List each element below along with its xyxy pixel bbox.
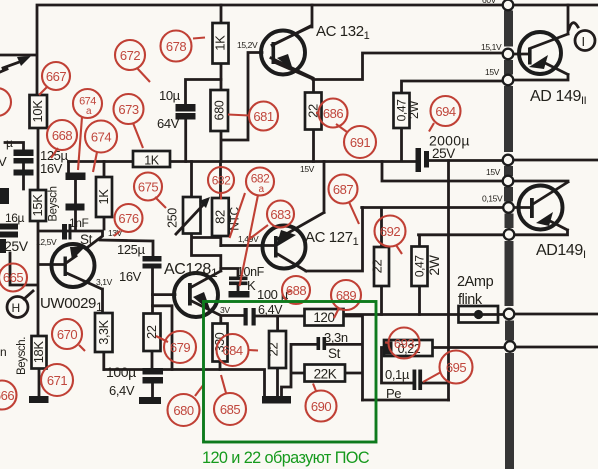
svg-text:3,1V: 3,1V	[96, 277, 113, 287]
svg-text:µ: µ	[6, 136, 13, 150]
svg-text:1nF: 1nF	[69, 216, 89, 230]
svg-text:AC 1321: AC 1321	[316, 23, 370, 42]
svg-text:3,3n: 3,3n	[324, 330, 348, 345]
svg-text:2Amp: 2Amp	[457, 274, 494, 290]
svg-text:25V: 25V	[432, 146, 455, 161]
svg-text:16V: 16V	[40, 161, 63, 176]
svg-text:670: 670	[57, 327, 77, 342]
svg-text:15K: 15K	[30, 194, 45, 217]
svg-text:82: 82	[212, 210, 227, 224]
svg-text:1K: 1K	[213, 35, 228, 51]
svg-text:685: 685	[220, 402, 240, 417]
svg-text:682: 682	[212, 174, 231, 188]
svg-text:250: 250	[166, 208, 180, 228]
svg-text:691: 691	[350, 135, 370, 150]
svg-text:3V: 3V	[220, 305, 230, 315]
svg-text:667: 667	[46, 69, 66, 84]
svg-text:AD149I: AD149I	[536, 242, 586, 261]
svg-text:22K: 22K	[314, 367, 337, 382]
svg-text:15,1V: 15,1V	[481, 42, 502, 52]
svg-text:10µ: 10µ	[159, 88, 181, 103]
svg-text:2W: 2W	[407, 100, 421, 119]
svg-text:120 и 22 образуют ПОС: 120 и 22 образуют ПОС	[202, 449, 370, 467]
svg-text:60V: 60V	[482, 0, 497, 5]
svg-text:St: St	[328, 346, 341, 361]
svg-text:683: 683	[270, 207, 290, 222]
svg-text:22: 22	[266, 343, 281, 357]
svg-text:I: I	[582, 34, 585, 49]
svg-text:Beysch.: Beysch.	[16, 337, 28, 375]
svg-text:Pe: Pe	[386, 386, 401, 401]
svg-text:AD 149II: AD 149II	[530, 88, 587, 107]
svg-text:666: 666	[0, 388, 14, 403]
svg-text:100 µ: 100 µ	[257, 287, 289, 302]
svg-text:12,5V: 12,5V	[36, 237, 57, 247]
svg-text:AC 1271: AC 1271	[305, 229, 359, 248]
svg-text:0,1µ: 0,1µ	[385, 367, 410, 382]
svg-text:679: 679	[170, 340, 190, 355]
svg-text:668: 668	[52, 128, 72, 143]
svg-text:665: 665	[3, 270, 23, 285]
svg-text:16V: 16V	[119, 269, 142, 284]
svg-text:flink: flink	[458, 292, 483, 308]
svg-text:n: n	[0, 345, 6, 359]
svg-text:681: 681	[253, 109, 273, 124]
svg-text:25V: 25V	[4, 238, 29, 254]
svg-text:1K: 1K	[96, 189, 111, 205]
svg-text:18K: 18K	[31, 341, 46, 364]
svg-text:15V: 15V	[485, 67, 500, 77]
svg-text:22: 22	[370, 260, 385, 274]
svg-text:6,4V: 6,4V	[258, 303, 283, 317]
svg-text:V: V	[0, 154, 7, 169]
svg-text:672: 672	[120, 48, 140, 63]
svg-text:K: K	[247, 278, 256, 293]
svg-text:15V: 15V	[486, 167, 501, 177]
svg-text:694: 694	[435, 104, 455, 119]
svg-text:10K: 10K	[30, 100, 45, 123]
svg-text:688: 688	[286, 283, 306, 298]
svg-text:671: 671	[47, 373, 67, 388]
svg-text:676: 676	[118, 211, 138, 226]
svg-text:64V: 64V	[157, 116, 180, 131]
svg-text:16µ: 16µ	[5, 211, 25, 225]
svg-text:687: 687	[333, 182, 353, 197]
svg-text:693: 693	[394, 336, 414, 351]
svg-text:AC1281: AC1281	[164, 261, 218, 280]
svg-text:St: St	[80, 232, 93, 247]
svg-text:692: 692	[380, 224, 400, 239]
svg-text:H: H	[12, 301, 20, 315]
svg-text:674: 674	[91, 130, 111, 145]
svg-text:15,2V: 15,2V	[237, 40, 258, 50]
svg-text:15V: 15V	[300, 164, 315, 174]
svg-text:684: 684	[222, 343, 242, 358]
svg-text:1K: 1K	[144, 154, 160, 168]
svg-text:Beysch: Beysch	[48, 186, 60, 221]
svg-text:UW00291: UW00291	[40, 295, 103, 314]
svg-text:680: 680	[213, 100, 227, 120]
svg-text:120: 120	[313, 310, 334, 325]
svg-text:0,15V: 0,15V	[482, 194, 503, 204]
svg-text:6,4V: 6,4V	[109, 383, 135, 398]
svg-text:673: 673	[118, 102, 138, 117]
svg-text:690: 690	[311, 399, 331, 414]
svg-text:100µ: 100µ	[106, 364, 136, 380]
svg-text:680: 680	[173, 403, 193, 418]
svg-text:675: 675	[138, 180, 158, 195]
svg-text:3,3K: 3,3K	[97, 319, 111, 344]
svg-text:695: 695	[446, 360, 466, 375]
svg-text:2W: 2W	[426, 254, 442, 275]
svg-text:0,47: 0,47	[413, 255, 427, 277]
svg-text:678: 678	[166, 39, 186, 54]
svg-text:686: 686	[323, 106, 343, 121]
svg-text:125µ: 125µ	[117, 242, 145, 257]
